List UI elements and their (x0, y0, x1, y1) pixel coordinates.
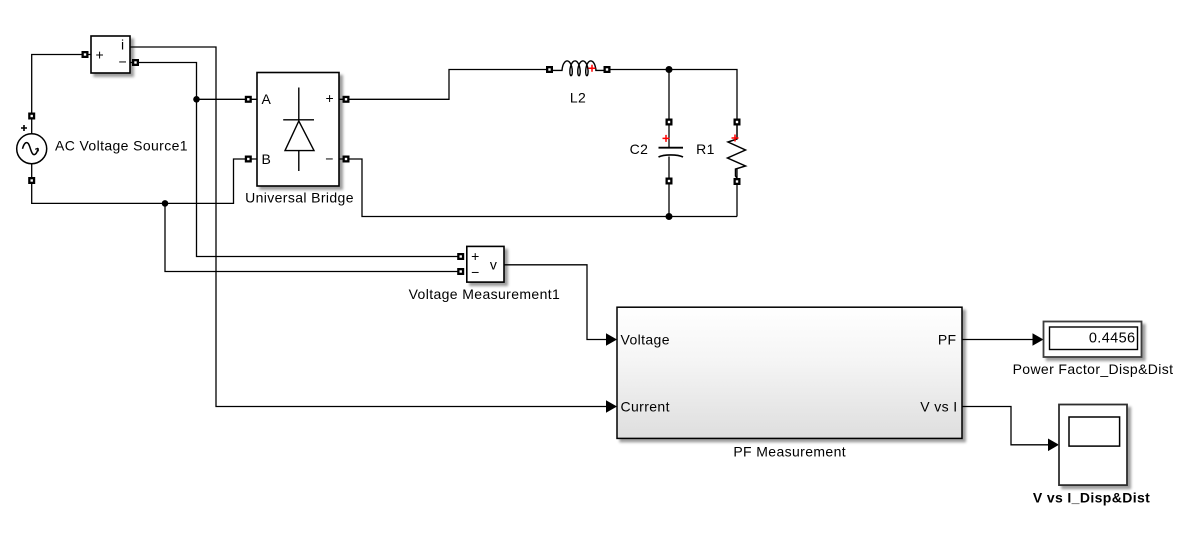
svg-text:B: B (262, 151, 272, 167)
port square VM minus (457, 268, 464, 275)
voltage measurement block body (467, 246, 504, 282)
wire Current Measurement i output down to PF Current input (130, 47, 612, 407)
port square bridge plus (343, 96, 350, 103)
port square CM left (82, 51, 89, 58)
wire L2 right to C2 and R1 top (610, 70, 737, 120)
resistor R1 zigzag (728, 122, 746, 178)
node junction at AC bottom branch (162, 200, 169, 207)
port square AC top (28, 113, 35, 120)
svg-text:+: + (471, 248, 480, 264)
port square bridge B (245, 156, 252, 163)
port square L2 right (604, 66, 611, 73)
arrowhead into Display (1033, 333, 1044, 346)
svg-text:R1: R1 (696, 141, 715, 157)
L2 red polarity plus (589, 65, 596, 72)
wire Bridge minus bottom return (339, 159, 737, 217)
display block Power Factor (1044, 322, 1142, 358)
wire AC source plus to Current Measurement plus (32, 55, 91, 135)
wire AC source minus to Bridge B (32, 159, 257, 203)
wire V vs I output to Scope (962, 407, 1054, 445)
port square R1 top (734, 119, 741, 126)
C2 red polarity plus (663, 135, 670, 142)
port square bridge minus (343, 156, 350, 163)
svg-text:L2: L2 (570, 90, 586, 106)
node junction at C2 bottom (666, 213, 673, 220)
svg-text:Voltage: Voltage (621, 331, 670, 347)
port square C2 top (666, 119, 673, 126)
inductor L2 coil (553, 61, 604, 76)
svg-text:C2: C2 (630, 141, 649, 157)
svg-text:V vs I: V vs I (920, 398, 957, 414)
bridge diode symbol (298, 88, 300, 120)
port square L2 left (546, 66, 553, 73)
port square C2 bottom (666, 178, 673, 185)
AC voltage source circle (17, 134, 47, 164)
node junction at C2 top (666, 66, 673, 73)
svg-text:+: + (326, 90, 335, 106)
svg-text:V vs I_Disp&Dist: V vs I_Disp&Dist (1033, 490, 1150, 506)
universal bridge block body (257, 73, 339, 187)
AC source polarity plus (21, 125, 27, 131)
wire branch node to Bridge A (197, 98, 258, 100)
svg-text:AC Voltage Source1: AC Voltage Source1 (55, 138, 188, 154)
wire Voltage Measurement v output to PF Voltage input (504, 265, 612, 340)
wire resistor R1 branch bottom (736, 169, 738, 217)
arrowhead into PF Voltage input (606, 333, 617, 346)
svg-text:PF Measurement: PF Measurement (733, 444, 846, 460)
svg-text:Current: Current (621, 398, 670, 414)
scope block (1059, 405, 1127, 486)
svg-text:−: − (119, 54, 128, 70)
arrowhead into PF Current input (606, 400, 617, 413)
node junction at minus-A branch (193, 96, 200, 103)
svg-text:Voltage Measurement1: Voltage Measurement1 (409, 286, 561, 302)
port square bridge A (245, 96, 252, 103)
svg-text:A: A (262, 91, 272, 107)
svg-text:Universal Bridge: Universal Bridge (245, 189, 354, 205)
AC source sine wave (23, 143, 38, 155)
svg-text:−: − (471, 264, 480, 280)
svg-text:0.4456: 0.4456 (1089, 330, 1136, 346)
wire PF output to Display (962, 339, 1039, 341)
wire branch node to Voltage Measurement minus (165, 203, 458, 271)
wire capacitor C2 branch (668, 70, 670, 148)
svg-text:v: v (490, 256, 497, 272)
port square CM minus right (132, 59, 139, 66)
scope screen (1069, 417, 1120, 446)
current measurement block body (91, 36, 130, 73)
capacitor C2 plates (659, 147, 684, 149)
R1 red polarity plus (732, 135, 739, 142)
port square AC bottom (28, 177, 35, 184)
arrowhead into Scope (1048, 439, 1059, 452)
port square R1 bottom (734, 178, 741, 185)
svg-text:i: i (121, 37, 125, 53)
wire Bridge plus to L2 (339, 70, 547, 100)
svg-text:−: − (325, 151, 334, 167)
svg-text:Power Factor_Disp&Dist: Power Factor_Disp&Dist (1013, 361, 1174, 377)
svg-text:+: + (96, 46, 105, 62)
PF Measurement subsystem block body (617, 307, 962, 438)
wire Current Measurement minus to Voltage Measurement plus (130, 63, 458, 257)
port square VM plus (457, 253, 464, 260)
svg-text:PF: PF (938, 331, 957, 347)
